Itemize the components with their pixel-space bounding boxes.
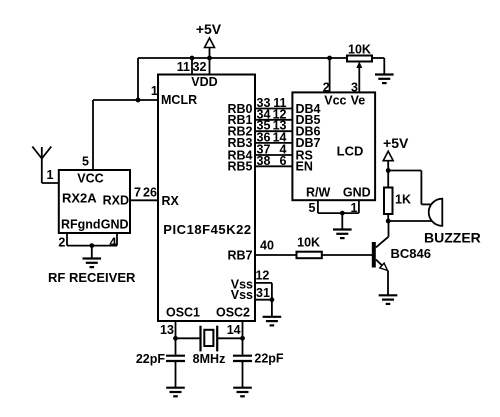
PIC18F45K22 U1 box [158, 75, 255, 322]
pin label 35 [257, 119, 271, 133]
wire LCD Vcc pin2 drop [329, 58, 331, 92]
label RB1 [227, 113, 252, 127]
wire RB3-DB7 [255, 142, 292, 144]
pin label 4 LCD [280, 143, 287, 157]
wire LCD ground join [318, 213, 359, 229]
wire OSC1 pin13 [175, 321, 177, 355]
wire 1K bottom [387, 214, 389, 221]
label GND RX2A [101, 218, 129, 232]
pin label 14 LCD [273, 130, 287, 144]
pin label 1 MCLR [151, 84, 158, 98]
svg-text:RX2A: RX2A [62, 191, 97, 206]
pin label 36 [257, 130, 271, 144]
label R/W [306, 186, 331, 200]
svg-text:Vcc: Vcc [324, 93, 346, 107]
wire +5V rail [138, 57, 347, 59]
svg-text:5: 5 [309, 201, 316, 215]
svg-text:+5V: +5V [383, 135, 409, 151]
node dot OSC1 [173, 336, 178, 341]
svg-text:7: 7 [134, 186, 141, 200]
pin label 3 LCD [351, 80, 358, 94]
label 8MHz [193, 352, 226, 366]
label LCD [337, 143, 364, 158]
svg-text:RF RECEIVER: RF RECEIVER [48, 270, 136, 285]
node dot rail/Vcc [327, 56, 332, 61]
label RXD [103, 194, 129, 208]
label 22pF right [254, 352, 284, 366]
label RB7 [227, 248, 252, 262]
label VCC [77, 172, 103, 186]
pin label 14 [227, 323, 241, 337]
svg-text:10K: 10K [348, 42, 371, 56]
wire RX2A pin4 [116, 233, 118, 246]
svg-text:Ve: Ve [351, 93, 366, 107]
wire RB2-DB6 [255, 130, 292, 132]
wire pot right to ground [372, 58, 384, 75]
pin label 11 [177, 60, 190, 74]
label OSC1 [166, 306, 200, 320]
label RX [162, 194, 180, 208]
pin label 12 [255, 269, 269, 283]
svg-text:BC846: BC846 [391, 246, 431, 261]
svg-text:8MHz: 8MHz [193, 352, 226, 366]
RF receiver RX2A box [59, 170, 130, 233]
svg-text:OSC2: OSC2 [216, 306, 250, 320]
node dot pin32/rail [207, 56, 212, 61]
wire RX2A pin2 [66, 233, 68, 246]
svg-text:22pF: 22pF [254, 352, 284, 366]
node dot MCLR junction [136, 98, 141, 103]
label RX2A [62, 191, 97, 206]
pin label 5 VCC [82, 155, 89, 169]
wire 1K top [387, 171, 389, 188]
ground C1 [166, 388, 185, 397]
svg-text:1: 1 [351, 201, 358, 215]
pin label 2 LCD [323, 80, 330, 94]
pin label 38 [257, 154, 271, 168]
label BC846 [391, 246, 431, 261]
pin label 13 [160, 323, 174, 337]
svg-text:RB5: RB5 [227, 160, 252, 174]
svg-text:R/W: R/W [306, 186, 331, 200]
label EN [296, 160, 313, 174]
svg-text:10K: 10K [297, 236, 320, 250]
node dot RX2A gnd [89, 243, 94, 248]
wire MCLR horizontal [93, 99, 158, 101]
pin label 31 [256, 286, 270, 300]
label MCLR [161, 93, 197, 107]
svg-text:LCD: LCD [337, 143, 364, 158]
antenna [32, 147, 51, 184]
svg-text:22pF: 22pF [136, 352, 166, 366]
svg-text:GND: GND [343, 186, 371, 200]
svg-text:PIC18F45K22: PIC18F45K22 [163, 222, 251, 237]
wire C1 to gnd [175, 361, 177, 388]
wire RB0-DB4 [255, 108, 292, 110]
wire RB5-EN [255, 165, 292, 167]
label VDD [191, 75, 217, 89]
label DB7 [296, 136, 321, 150]
label RFgnd [61, 218, 101, 232]
ground RX2A [83, 259, 102, 268]
wire Vss pin31 [255, 299, 272, 301]
pin label 1 antenna [47, 168, 54, 182]
wire RB7 to resistor [255, 254, 297, 256]
pin label 12 LCD [273, 107, 287, 121]
ground LCD [333, 230, 352, 239]
wire Vss pin12 [255, 283, 272, 317]
svg-text:5: 5 [82, 155, 89, 169]
capacitor C1 22pF left [166, 356, 185, 361]
label 10K pot [348, 42, 371, 56]
node dot LCD gnd [340, 211, 345, 216]
svg-text:RXD: RXD [103, 194, 129, 208]
capacitor C2 22pF right [233, 356, 252, 361]
svg-text:VDD: VDD [191, 75, 217, 89]
node dot buzzer bottom [386, 219, 391, 224]
LCD box [292, 92, 375, 200]
svg-text:1: 1 [47, 168, 54, 182]
pin label 11 LCD [273, 96, 286, 110]
label Vss pin12 [231, 277, 253, 291]
svg-text:26: 26 [143, 186, 157, 200]
svg-text:32: 32 [193, 60, 207, 74]
label Vss pin31 [231, 288, 253, 302]
svg-text:RX: RX [162, 194, 180, 208]
svg-text:+5V: +5V [196, 21, 222, 37]
svg-text:3: 3 [351, 80, 358, 94]
label 1K [395, 193, 411, 207]
wire LCD pin5 [317, 200, 319, 213]
svg-text:2: 2 [58, 236, 65, 250]
pin label 37 [257, 143, 271, 157]
svg-text:EN: EN [296, 160, 313, 174]
label RS [296, 148, 313, 162]
power +5V buzzer [383, 135, 409, 170]
wire C2 to gnd [242, 361, 244, 388]
svg-text:12: 12 [255, 269, 269, 283]
wire buzzer top path [388, 171, 431, 205]
label RB2 [227, 125, 252, 139]
pin label 6 LCD [280, 154, 287, 168]
svg-text:38: 38 [257, 154, 271, 168]
pin label 26 [143, 186, 157, 200]
svg-text:14: 14 [227, 323, 241, 337]
label Vcc [324, 93, 346, 107]
svg-text:13: 13 [160, 323, 174, 337]
wire collector up [388, 221, 390, 237]
svg-text:40: 40 [260, 239, 274, 253]
label OSC2 [216, 306, 250, 320]
crystal X1 8MHz [201, 326, 218, 352]
wire antenna to RX2A pin1 [42, 182, 59, 184]
wire crystal right [217, 337, 242, 339]
svg-text:4: 4 [110, 236, 117, 250]
svg-text:MCLR: MCLR [161, 93, 197, 107]
svg-text:31: 31 [256, 286, 270, 300]
node dot OSC2 [240, 336, 245, 341]
label RB3 [227, 136, 252, 150]
svg-text:OSC1: OSC1 [166, 306, 200, 320]
label Ve [351, 93, 366, 107]
svg-text:GND: GND [101, 218, 129, 232]
label BUZZER [424, 230, 481, 246]
pin label 40 [260, 239, 274, 253]
svg-text:1K: 1K [395, 193, 411, 207]
svg-text:11: 11 [177, 60, 190, 74]
label DB5 [296, 113, 321, 127]
label GND LCD [343, 186, 371, 200]
wire RB1-DB5 [255, 119, 292, 121]
svg-text:VCC: VCC [77, 172, 103, 186]
pin label 1 LCD [351, 201, 358, 215]
label 10K base [297, 236, 320, 250]
pin label 33 [257, 96, 271, 110]
wire RX2A VCC branch [92, 100, 94, 170]
label DB4 [296, 102, 321, 116]
wire VDD pin 32 drop [209, 58, 211, 75]
wire OSC2 pin14 [242, 321, 244, 355]
pin label 7 [134, 186, 141, 200]
ground pot [375, 75, 394, 84]
label PIC18F45K22 [163, 222, 251, 237]
ground C2 [233, 388, 252, 397]
power +5V main [196, 21, 222, 58]
label 22pF left [136, 352, 166, 366]
wire RB4-RS [255, 154, 292, 156]
svg-text:1: 1 [151, 84, 158, 98]
pin label 32 [193, 60, 207, 74]
wire RXD to RX [130, 199, 158, 201]
wire crystal left [176, 337, 201, 339]
transistor Q1 BC846 [372, 237, 389, 271]
resistor 10K base body [297, 252, 322, 259]
label RF RECEIVER [48, 270, 136, 285]
wire RX2A ground join [67, 246, 117, 259]
wire resistor to base [322, 254, 372, 256]
node dot Vss [270, 297, 275, 302]
pot wiper arrow to Ve pin3 [356, 62, 362, 93]
pin label 5 LCD [309, 201, 316, 215]
label RB0 [227, 102, 252, 116]
svg-text:BUZZER: BUZZER [424, 230, 481, 246]
wire VDD pin 11 drop [191, 58, 193, 75]
label DB6 [296, 125, 321, 139]
buzzer LS1 [429, 199, 443, 226]
wire LCD pin1 [358, 200, 360, 213]
potentiometer 10K body [347, 56, 372, 62]
wire buzzer bottom [388, 220, 432, 222]
ground Vss [263, 317, 282, 326]
label RB4 [227, 148, 252, 162]
ground emitter [379, 295, 398, 304]
svg-text:Vss: Vss [231, 288, 253, 302]
label RB5 [227, 160, 252, 174]
node dot buzzer top [386, 168, 391, 173]
node dot pin11/rail [190, 56, 195, 61]
resistor 1K body [384, 188, 393, 215]
wire MCLR branch vertical [137, 58, 139, 100]
pin label 34 [257, 107, 271, 121]
svg-text:2: 2 [323, 80, 330, 94]
svg-text:6: 6 [280, 154, 287, 168]
pin label 4 [110, 236, 117, 250]
svg-text:RB7: RB7 [227, 248, 252, 262]
pin label 13 LCD [273, 119, 287, 133]
pin label 2 [58, 236, 65, 250]
svg-text:RFgnd: RFgnd [61, 218, 101, 232]
wire emitter down [387, 271, 389, 296]
